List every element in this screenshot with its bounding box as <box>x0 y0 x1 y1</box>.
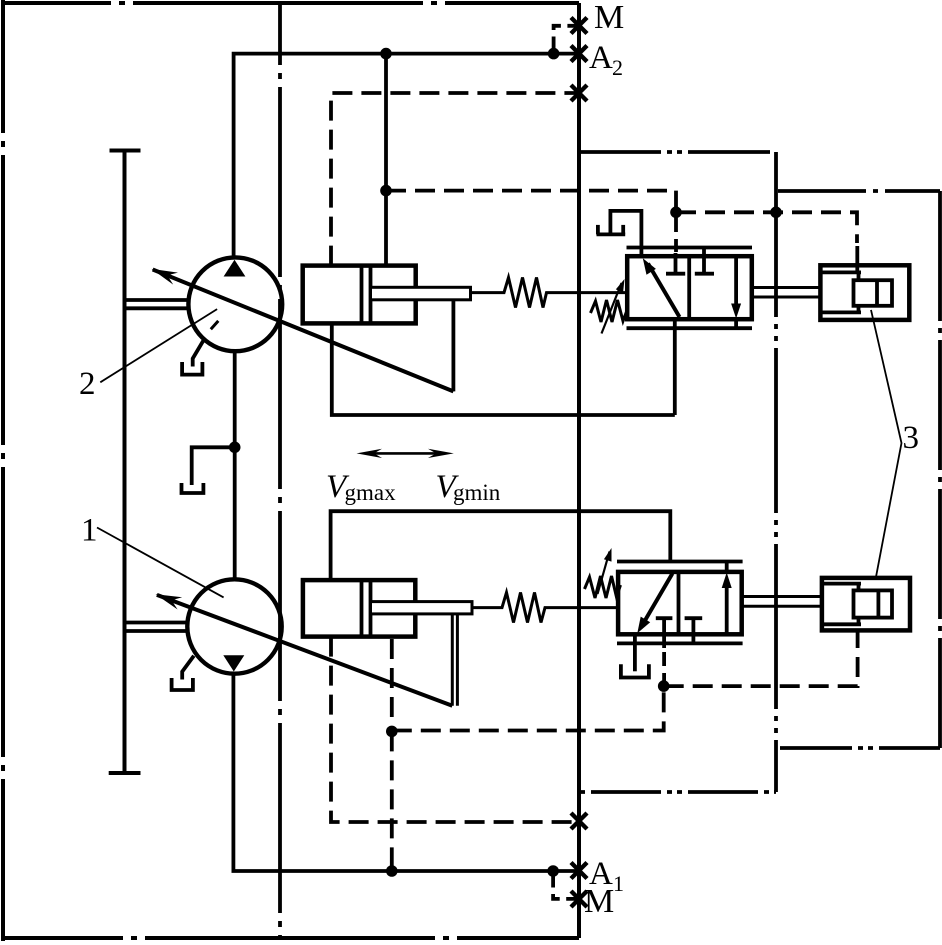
valve port line to return box top <box>673 319 677 415</box>
control valve 1 drain tank cup <box>621 664 649 677</box>
feedback spring top <box>471 278 628 308</box>
relief valve 3b bracket <box>823 582 862 586</box>
push rod valve2 to relief (double line) <box>752 286 821 289</box>
relief valve 3a outer box <box>820 265 909 320</box>
svg-text:1: 1 <box>81 513 98 549</box>
control valve 1 adjustable spring <box>585 576 621 598</box>
feedback link bottom (double line) <box>451 614 454 706</box>
junction dot pilot/valve top <box>670 207 682 219</box>
wire dashed gauge bracket M (bottom) <box>553 876 577 899</box>
junction dot A2/M bracket <box>548 48 560 60</box>
control cylinder bottom body <box>303 580 415 637</box>
port X bottom cross <box>571 813 587 829</box>
enclosure pump unit boundary left edge (chain line) <box>1 0 5 941</box>
drive shaft bottom T cap <box>109 771 141 775</box>
leader line label 2 <box>100 309 217 382</box>
pump 2 outlet triangle <box>224 260 246 277</box>
shaft coupling to pump 2 (double line) <box>126 298 190 302</box>
arrowhead valve 2 spring adjust <box>616 279 625 293</box>
junction dot common drain <box>229 442 241 454</box>
enclosure control-valve block bottom edge (phantom line) <box>579 790 776 794</box>
port X top cross <box>571 85 587 101</box>
pump 1 outlet triangle <box>223 655 244 671</box>
common case drain branch with tank cup <box>192 447 235 485</box>
junction dot A2/drop <box>380 48 392 60</box>
control valve 2 blocked port T right <box>702 248 706 273</box>
pump 1 circle <box>187 579 281 673</box>
control valve 1 proportional lines <box>617 560 743 564</box>
port A2 cross <box>571 46 587 62</box>
leader line label 3 <box>871 310 902 578</box>
control valve 2 proportional lines <box>627 246 753 250</box>
dashed pilot to relief valve (bottom) <box>664 632 858 686</box>
control valve 1 drain stub <box>633 634 637 671</box>
dashed pilot control line (bottom) <box>392 686 664 730</box>
wire dashed pilot control line (top) <box>386 191 676 213</box>
enclosure relief-valve block right edge (phantom line) <box>938 191 942 748</box>
tick mark pump 2 <box>211 321 219 329</box>
control valve 1 upper stub <box>725 562 729 572</box>
svg-text:M: M <box>584 883 614 920</box>
arrowhead valve 2 throttle <box>643 258 656 275</box>
wire A2 line from pump 2 outlet <box>234 54 579 258</box>
wire dashed box (top) <box>331 93 579 266</box>
pump 2 case drain line <box>193 339 205 367</box>
arrowhead valve 1 up-flow <box>722 573 732 589</box>
arrowhead swashplate pump 1 <box>156 594 183 609</box>
junction dot pilot branch top <box>380 185 392 197</box>
feedback link top <box>451 300 455 392</box>
Vg adjustment double arrow <box>372 452 440 455</box>
enclosure pump unit boundary top edge (chain line) <box>1 1 579 5</box>
arrowhead swashplate pump 2 <box>152 269 179 285</box>
shaft coupling to pump 1 (double line) <box>126 621 189 625</box>
swashplate arrow pump 2 <box>153 270 454 392</box>
pump 1 case drain line <box>182 656 194 680</box>
control valve 2 blocked port T left <box>674 253 678 272</box>
control valve 2 drain path <box>610 211 641 257</box>
control valve 2 lower stub <box>734 319 738 328</box>
push rod valve1 to relief (double line) <box>742 595 822 598</box>
junction dot A1/drop <box>386 865 398 877</box>
pump 1 drain tank cup <box>172 678 193 690</box>
arrowhead valve 2 down-flow <box>731 304 741 319</box>
svg-text:M: M <box>594 0 624 36</box>
junction dot control drop bottom <box>386 726 398 738</box>
port M bottom cross <box>571 891 587 907</box>
svg-text:1: 1 <box>613 871 624 896</box>
junction dot A1/M bracket <box>547 865 559 877</box>
control cylinder top body <box>303 266 416 324</box>
wire pilot stub piercing relief valve (top) <box>855 246 859 272</box>
svg-text:2: 2 <box>612 55 623 80</box>
control valve 2 adjustable spring <box>591 300 628 322</box>
relief valve 3b outer box <box>822 578 910 631</box>
enclosure relief-valve block bottom edge (phantom line) <box>776 746 940 750</box>
control valve 1 up-flow arrow <box>725 580 729 634</box>
wire dashed pilot stub into valve (top) <box>674 217 678 252</box>
control valve 2 divider <box>687 256 691 319</box>
pump 2 suction line to pump 1 <box>233 351 237 579</box>
control cylinder bottom piston rod <box>371 602 473 614</box>
control valve 1 divider <box>677 572 681 634</box>
control valve 1 body <box>618 572 742 634</box>
relief valve 3b piston box <box>854 590 893 617</box>
swashplate arrow pump 1 <box>157 595 452 706</box>
leader line label 1 <box>97 528 224 598</box>
arrowhead Vg left <box>357 449 383 458</box>
control valve 1 blocked port T right <box>685 616 703 620</box>
control cylinder bottom piston plates <box>360 581 364 637</box>
drive shaft top T cap <box>110 149 141 153</box>
control valve 1 blocked port T left <box>656 616 673 620</box>
port M top cross <box>571 18 587 34</box>
port A1 cross <box>571 863 587 879</box>
relief valve 3a bracket <box>821 270 861 274</box>
wire solid drop line to control cylinder (top) <box>384 54 388 266</box>
pump 2 circle <box>188 257 282 351</box>
solid supply box bottom <box>331 511 671 580</box>
control cylinder top piston rod <box>371 287 471 300</box>
pump common axis chain line <box>278 3 282 938</box>
junction dot pilot/enclosure top <box>770 207 782 219</box>
enclosure control-valve block top edge (phantom line) <box>579 150 776 154</box>
wire dashed gauge bracket M (top) <box>554 26 577 48</box>
relief valve 3a piston box <box>854 280 893 306</box>
dashed box bottom <box>331 637 579 822</box>
wire dashed pilot to relief valve (top) <box>676 212 857 243</box>
main pressure line (vertical) <box>577 3 581 938</box>
dashed drop line bottom cylinder <box>390 639 394 731</box>
svg-text:gmax: gmax <box>345 480 397 505</box>
svg-text:2: 2 <box>79 366 96 402</box>
enclosure control-valve block right edge (phantom line) <box>774 152 778 792</box>
svg-text:gmin: gmin <box>453 480 501 505</box>
arrowhead valve 1 spring adjust <box>604 548 612 562</box>
control valve 2 throttle arrow <box>648 264 680 318</box>
junction dot pilot/valve bottom <box>658 680 670 692</box>
pump 2 drain tank cup <box>182 362 202 375</box>
feedback spring bottom <box>472 593 618 623</box>
control cylinder top piston plates <box>360 266 364 323</box>
arrowhead valve 1 throttle <box>637 617 650 634</box>
control valve 2 down-flow arrow <box>734 257 738 311</box>
enclosure relief-valve block top edge (phantom line) <box>776 189 940 193</box>
control valve 2 body <box>627 256 752 319</box>
arrowhead Vg right <box>428 449 454 458</box>
solid return box top <box>332 323 675 415</box>
enclosure pump unit boundary bottom edge (chain line) <box>1 936 579 940</box>
dashed stub valve to pilot (bottom) <box>662 652 666 684</box>
drive shaft vertical <box>123 151 127 774</box>
control valve 1 throttle arrow <box>644 574 673 624</box>
pump 1 outlet line to A1 <box>233 674 580 871</box>
svg-text:A: A <box>589 40 613 76</box>
svg-text:3: 3 <box>903 420 920 456</box>
control valve 2 drain tank cup <box>597 232 626 236</box>
